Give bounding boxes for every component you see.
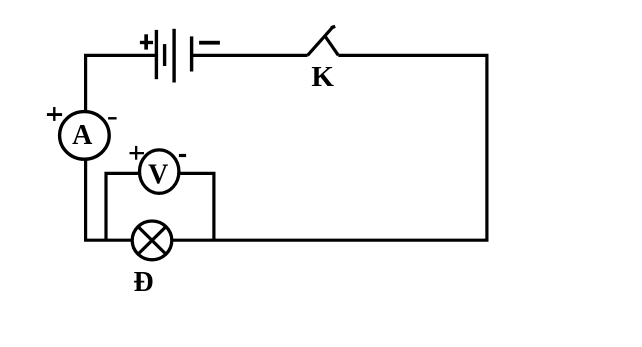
svg-text:Đ: Đ — [133, 267, 153, 298]
svg-text:V: V — [148, 160, 168, 191]
svg-text:K: K — [311, 61, 334, 93]
svg-text:A: A — [72, 120, 93, 151]
